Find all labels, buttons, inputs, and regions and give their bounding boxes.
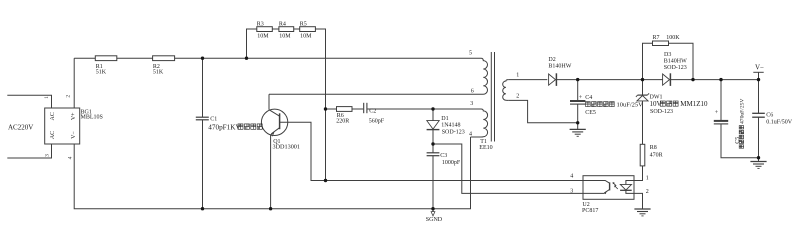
svg-text:470uF/25V: 470uF/25V: [740, 99, 746, 125]
svg-text:V+: V+: [71, 112, 77, 120]
svg-text:4: 4: [68, 156, 74, 159]
svg-text:10M: 10M: [300, 33, 312, 39]
svg-text:R3: R3: [257, 22, 264, 28]
svg-text:4: 4: [570, 174, 573, 180]
svg-text:0.1uF/50V: 0.1uF/50V: [766, 120, 793, 126]
svg-text:4: 4: [469, 131, 472, 137]
svg-text:470R: 470R: [650, 152, 663, 158]
svg-text:V−: V−: [755, 64, 764, 72]
svg-text:R8: R8: [650, 145, 657, 151]
svg-text:10uF/25V: 10uF/25V: [617, 102, 644, 109]
svg-text:1: 1: [516, 73, 519, 79]
svg-text:U2: U2: [582, 202, 589, 208]
svg-text:SOD-123: SOD-123: [664, 65, 687, 71]
svg-text:6: 6: [471, 89, 474, 95]
svg-text:EE10: EE10: [479, 145, 492, 151]
svg-text:+: +: [715, 109, 719, 116]
svg-text:D2: D2: [548, 57, 555, 63]
svg-text:C2: C2: [369, 108, 376, 114]
svg-text:PC817: PC817: [582, 208, 598, 214]
svg-text:D3: D3: [664, 52, 671, 58]
svg-text:+: +: [579, 94, 583, 101]
svg-text:R4: R4: [279, 22, 286, 28]
svg-text:1: 1: [44, 96, 50, 99]
svg-text:3: 3: [45, 154, 51, 157]
svg-text:R7: R7: [653, 35, 660, 41]
svg-text:C4: C4: [585, 95, 592, 101]
svg-text:C3: C3: [440, 153, 447, 159]
svg-text:SOD-123: SOD-123: [442, 130, 465, 136]
svg-text:10V: 10V: [650, 100, 662, 108]
svg-text:10M: 10M: [257, 33, 269, 39]
svg-text:51K: 51K: [96, 70, 107, 76]
svg-text:CE5: CE5: [585, 110, 596, 116]
svg-text:AC: AC: [50, 112, 56, 120]
svg-text:1: 1: [646, 176, 649, 182]
svg-text:3: 3: [570, 189, 573, 195]
svg-text:10M: 10M: [279, 33, 291, 39]
svg-text:AC: AC: [50, 131, 56, 139]
svg-text:100K: 100K: [666, 35, 680, 41]
svg-text:560pF: 560pF: [369, 118, 385, 124]
svg-text:3: 3: [470, 101, 473, 107]
svg-text:V−: V−: [71, 131, 77, 139]
svg-text:B140HW: B140HW: [548, 63, 571, 69]
svg-text:2: 2: [65, 95, 71, 98]
svg-text:SGND: SGND: [426, 217, 443, 223]
svg-text:1N4148: 1N4148: [441, 122, 460, 128]
svg-text:R5: R5: [300, 22, 307, 28]
svg-text:3DD13001: 3DD13001: [273, 144, 301, 151]
svg-text:D1: D1: [441, 116, 448, 122]
svg-text:MBL10S: MBL10S: [81, 115, 103, 121]
svg-text:51K: 51K: [153, 70, 164, 76]
svg-text:470pF1KV: 470pF1KV: [208, 123, 241, 131]
svg-text:B140HW: B140HW: [664, 59, 687, 65]
svg-text:5: 5: [469, 51, 472, 57]
svg-text:2: 2: [646, 189, 649, 195]
svg-text:C1: C1: [210, 116, 217, 122]
svg-text:SOD-123: SOD-123: [650, 109, 673, 115]
svg-text:C6: C6: [766, 112, 773, 118]
svg-text:2: 2: [516, 93, 519, 99]
svg-text:220R: 220R: [336, 118, 349, 124]
svg-text:MM1Z10: MM1Z10: [680, 100, 708, 108]
svg-text:AC220V: AC220V: [8, 123, 33, 131]
svg-text:1000pF: 1000pF: [442, 160, 461, 166]
